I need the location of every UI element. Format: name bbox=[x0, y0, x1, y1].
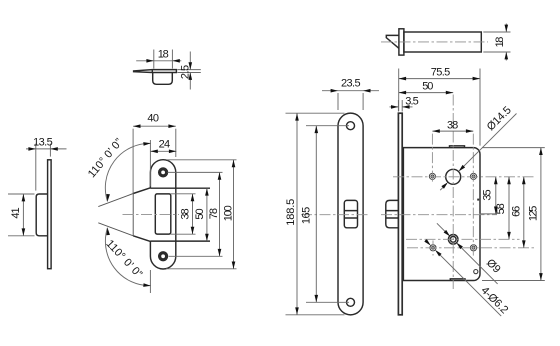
svg-text:165: 165 bbox=[301, 207, 313, 224]
svg-text:58: 58 bbox=[495, 203, 507, 214]
small hole bottom-right corner bbox=[474, 270, 478, 274]
svg-text:125: 125 bbox=[527, 206, 539, 222]
dim 2.5 (v1) bbox=[177, 52, 200, 90]
centerline (strike) bbox=[123, 214, 180, 216]
small tick mark bbox=[477, 199, 479, 201]
dust box (side view) bbox=[36, 194, 47, 236]
dim 38 (case holes) bbox=[432, 130, 473, 132]
dim 18 (bolt) bbox=[483, 24, 510, 61]
dim 24 bbox=[150, 140, 176, 187]
svg-text:13.5: 13.5 bbox=[33, 136, 53, 148]
angle dim 110 deg upper bbox=[105, 143, 150, 201]
faceplate screw hole top bbox=[347, 122, 355, 130]
dim 66 line bbox=[523, 177, 525, 248]
strike plate body with rounded tabs bbox=[150, 160, 175, 269]
centerline (bolt) bbox=[381, 41, 488, 43]
svg-text:18: 18 bbox=[158, 48, 169, 60]
svg-text:35: 35 bbox=[482, 189, 494, 200]
dim 13.5 (v2) bbox=[26, 144, 67, 191]
svg-text:3.5: 3.5 bbox=[405, 96, 419, 108]
dim 75.5 bbox=[399, 69, 480, 146]
svg-text:38: 38 bbox=[179, 208, 191, 219]
right side ext lines (case) bbox=[480, 148, 545, 281]
bolt bevel tip bbox=[386, 35, 399, 48]
dust box (top view) bbox=[153, 73, 173, 85]
bottom notch bbox=[450, 279, 465, 281]
svg-text:2.5: 2.5 bbox=[179, 65, 191, 79]
strike plate (side view) bbox=[48, 160, 52, 269]
centerlines (case) bbox=[381, 95, 535, 290]
angle dim 110 deg lower bbox=[105, 228, 150, 286]
dim 50 line bbox=[206, 188, 208, 241]
latch bolt body bbox=[404, 32, 481, 52]
dim 100 line bbox=[233, 160, 235, 269]
svg-text:24: 24 bbox=[159, 138, 171, 150]
faceplate bbox=[338, 113, 363, 315]
svg-text:41: 41 bbox=[10, 207, 22, 218]
dim 165 bbox=[306, 126, 349, 303]
dim 41 (v2) bbox=[8, 194, 35, 236]
lock case body bbox=[403, 148, 480, 281]
fixing hole top-left bbox=[429, 173, 435, 179]
dim 40 bbox=[133, 126, 176, 193]
dim 50 (backset) bbox=[399, 92, 454, 94]
faceplate screw hole bottom bbox=[347, 298, 355, 306]
wire blade divider bbox=[151, 70, 153, 73]
dim 23.5 bbox=[322, 91, 379, 110]
recess line bottom bbox=[150, 240, 210, 242]
dim 58 line bbox=[508, 177, 510, 240]
dim 35 line bbox=[495, 177, 497, 214]
dim 125 line bbox=[540, 148, 542, 281]
centerline (faceplate) bbox=[301, 214, 369, 216]
screw hole bottom (strike) bbox=[159, 252, 168, 261]
svg-text:66: 66 bbox=[510, 206, 522, 217]
svg-text:78: 78 bbox=[208, 208, 220, 219]
faceplate edge-on bar bbox=[398, 113, 402, 315]
dim 18 (v1) bbox=[136, 50, 181, 69]
bolt flange bbox=[399, 29, 404, 55]
svg-text:100: 100 bbox=[222, 205, 234, 221]
bent lip wing edges (thick part) bbox=[133, 188, 150, 242]
svg-text:23.5: 23.5 bbox=[341, 78, 361, 90]
follower hole bbox=[446, 169, 461, 184]
svg-text:38: 38 bbox=[447, 119, 458, 131]
dim 38 line bbox=[192, 194, 194, 234]
fixing hole bottom-right bbox=[470, 245, 476, 251]
strike plate blade (top view) bbox=[134, 70, 177, 73]
dim 3.5 bbox=[390, 100, 413, 112]
svg-text:18: 18 bbox=[494, 37, 506, 48]
right side ext lines (strike) bbox=[166, 160, 237, 269]
leader dia 9 bbox=[437, 223, 498, 284]
recess line top bbox=[150, 187, 210, 189]
leader dia 14.5 bbox=[440, 114, 516, 191]
cylinder hole bbox=[448, 235, 458, 245]
top notch bbox=[450, 146, 465, 148]
svg-text:75.5: 75.5 bbox=[431, 66, 451, 78]
fixing hole bottom-left bbox=[430, 245, 436, 251]
svg-text:50: 50 bbox=[422, 81, 433, 93]
latch bolt protruding (side) bbox=[386, 146, 480, 281]
screw hole top (strike) bbox=[159, 168, 168, 261]
bent lip projection (thin slants) bbox=[98, 194, 133, 236]
latch bevel lines bbox=[344, 211, 357, 218]
faceplate latch opening bbox=[344, 200, 357, 227]
svg-text:50: 50 bbox=[194, 208, 206, 219]
svg-text:40: 40 bbox=[147, 112, 159, 124]
dim 188.5 bbox=[286, 113, 345, 315]
svg-text:188.5: 188.5 bbox=[285, 199, 297, 226]
dim 78 line bbox=[219, 172, 221, 256]
latch opening bbox=[155, 194, 171, 234]
leader 4-dia 6.2 bbox=[425, 240, 501, 316]
fixing hole top-right bbox=[470, 173, 476, 179]
